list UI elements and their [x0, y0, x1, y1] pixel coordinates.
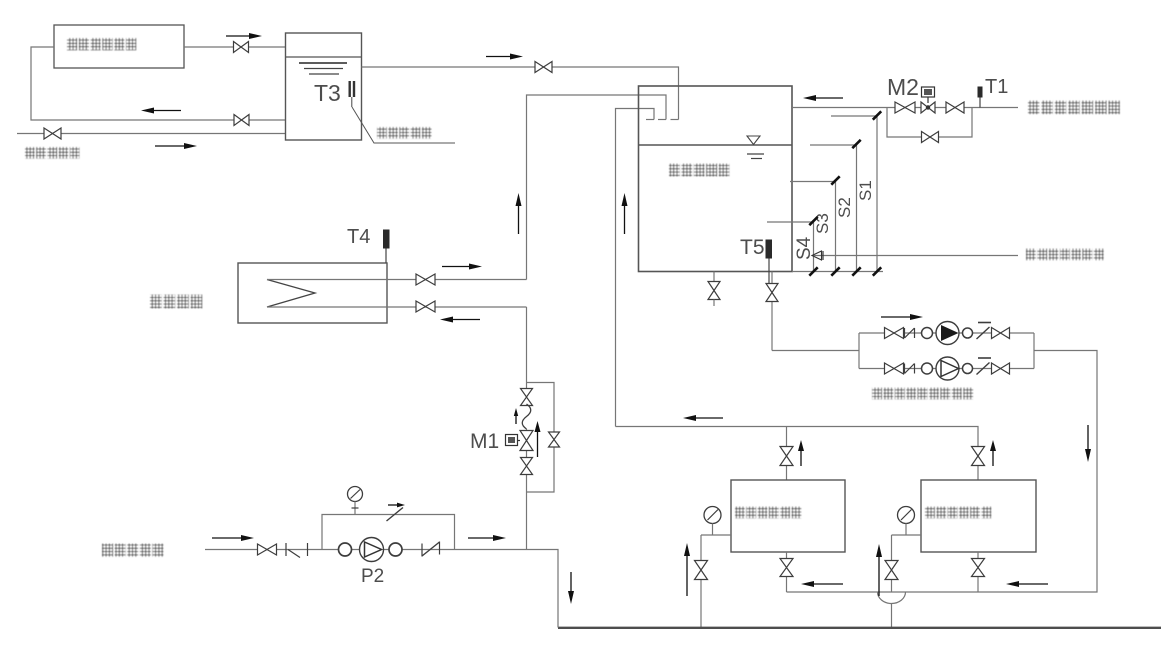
tank water level line [639, 144, 793, 146]
label 热泵热水机组 (1) [735, 507, 801, 519]
wire T3 outlet to hot water tank top [362, 67, 679, 120]
flow arrow up beside HP1 top valve [800, 451, 802, 466]
check valve [977, 327, 990, 339]
pressure gauge at HP2 inlet [898, 507, 915, 524]
valve on heater upper pipe [416, 274, 435, 285]
motorized valve M2 [921, 102, 935, 113]
wire cold water main to down riser [205, 550, 558, 628]
M2 bypass loop [887, 108, 972, 138]
callout leader 太阳能水箱 [352, 107, 455, 143]
sensor line S2 [810, 145, 857, 272]
label 太阳能集热管 [67, 38, 136, 50]
valve on M1 bypass [549, 432, 560, 447]
valve right of M2 [946, 102, 964, 113]
hook foot riser B [646, 119, 654, 121]
branch outlet valve [992, 328, 1010, 339]
flex connector [904, 364, 906, 374]
wire return line from M2 to tank [792, 107, 1018, 109]
tank T3 solar water tank [286, 33, 362, 140]
flow triangle on supply line [812, 251, 822, 260]
hook foot riser A [658, 119, 666, 121]
branch inlet valve [885, 328, 904, 339]
valve on M2 bypass [922, 132, 939, 143]
branch inlet valve [885, 363, 904, 374]
svg-text:S2: S2 [835, 197, 854, 218]
pump P2 [360, 538, 384, 562]
flow arrow right cold main (west) [212, 537, 241, 539]
water surface nabla symbol [747, 136, 760, 145]
wire riser A (heater supply) to tank top [527, 95, 667, 280]
flow arrow up beside riser B [624, 206, 626, 234]
check valve on bypass [387, 508, 404, 522]
label 生活热水箱 [669, 164, 729, 177]
wire HP2 outlet down to return line [977, 552, 979, 592]
valve below HP1 [780, 559, 793, 577]
relief S symbol [522, 404, 531, 429]
svg-text:S3: S3 [813, 213, 832, 234]
flow arrow left on return line (west) [814, 583, 843, 585]
valve on cold water line [44, 128, 61, 139]
label 生活热水供水管 [1026, 249, 1104, 261]
M1 bypass loop [527, 383, 555, 493]
wire solar return loop (left riser + return line) [31, 47, 286, 120]
flow arrow up beside HP2 top valve [992, 451, 994, 466]
wire heater upper pipe [267, 279, 527, 281]
heat pump unit 1 box 热泵热水机组 [731, 480, 845, 552]
flow arrow up in M1 group [537, 432, 539, 457]
label 冷水供水管 (top-left) [25, 147, 80, 159]
svg-text:T5: T5 [740, 236, 765, 259]
flow arrow right above pump group [881, 316, 910, 318]
flow arrow left on supply header [696, 417, 723, 419]
flow arrow right heater outlet [442, 266, 469, 268]
valve on HP2 inlet riser [885, 561, 898, 580]
hook foot of down pipe [671, 119, 679, 121]
tank 生活热水箱 domestic hot water tank [639, 86, 793, 272]
wire heater riser lower segment through M1 [526, 307, 528, 405]
wire HP1 inlet [701, 534, 731, 536]
pressure gauge at HP1 inlet [704, 507, 721, 524]
flow arrow down beside cold riser [570, 572, 572, 591]
svg-text:S4: S4 [794, 236, 815, 260]
flow arrow right (T3 outlet) [486, 56, 510, 58]
pump group right header [1033, 333, 1035, 369]
flow arrow down on right riser [1087, 425, 1089, 449]
tank T3 top divider [286, 56, 362, 58]
pump branch bottom wire [859, 368, 1034, 370]
svg-text:T1: T1 [985, 76, 1008, 98]
wire HP2 inlet riser upper segment [891, 535, 893, 592]
heat pump unit 2 box 热泵热水机组 [921, 480, 1036, 552]
thermometer T3 sensor [349, 81, 351, 97]
wire riser B (heat pump loop) to tank top [616, 109, 655, 427]
sensor line S3 [790, 182, 836, 272]
wire heater lower pipe [267, 306, 527, 308]
check valve [977, 363, 990, 375]
flow arrow up beside HP2 inlet [878, 557, 880, 596]
branch outlet valve [992, 363, 1010, 374]
flow arrow right (cold water) [155, 145, 184, 147]
svg-text:M1: M1 [470, 430, 499, 453]
sensor line S1 [831, 116, 877, 272]
valve above M1 [521, 389, 533, 406]
flow arrow left (solar return) [154, 110, 181, 112]
sensor line S4 [767, 222, 814, 272]
wire pump group outlet to right riser down to HP return [787, 351, 1098, 593]
tank bottom extension line with ticks [792, 271, 883, 273]
wire HP1 inlet riser from bottom main [700, 535, 702, 628]
flow arrow up beside HP1 inlet [686, 556, 688, 596]
wire heat pump supply header y424 [616, 427, 979, 481]
valve on solar supply [234, 42, 249, 53]
svg-text:S1: S1 [856, 180, 875, 201]
valve on T3 outlet run [535, 62, 552, 73]
flow arrow left into tank top right [816, 97, 843, 99]
circulation pump running [936, 322, 959, 345]
thermometer T5 sensor [766, 240, 773, 259]
wire drop to heat pump 1 [786, 427, 788, 481]
union flange [963, 328, 973, 338]
wire HP1 outlet down to return line [786, 552, 788, 592]
pressure gauge on bypass [348, 487, 363, 502]
valve on tank outlet [766, 284, 778, 302]
wire cold water supply to T3 [17, 133, 286, 135]
thermometer T4 sensor [383, 230, 390, 249]
pump branch top wire [859, 332, 1034, 334]
union flange [963, 364, 973, 374]
valve left of M2 [895, 102, 915, 113]
label 热泵热水机组 (2) [925, 507, 991, 519]
flow arrow left on return line (east) [1019, 583, 1048, 585]
pipe bridge arc over return line [878, 592, 906, 604]
drain valve below tank [713, 272, 715, 282]
tank T3 water level lines [299, 62, 347, 64]
svg-text:M2: M2 [887, 74, 919, 100]
flow arrow left heater inlet [453, 319, 480, 321]
valve on HP1 inlet riser [695, 561, 708, 580]
label 冷水供水管 (bottom) [102, 544, 163, 557]
flow arrow right (solar supply) [226, 35, 249, 37]
wire to pump group inlet [772, 350, 859, 352]
valve on cold main [258, 544, 277, 555]
label 生活热水一次循环泵 [872, 388, 973, 400]
flow arrow right cold main (east) [468, 537, 493, 539]
wire HP2 inlet riser lower segment [891, 604, 893, 628]
motorized valve M1 [520, 431, 533, 451]
electric heater box 电加热器 [238, 263, 387, 323]
svg-text:P2: P2 [361, 566, 384, 587]
flow arrow up beside riser A [518, 206, 520, 234]
label 太阳能水箱 [377, 127, 432, 139]
valve on solar return [234, 115, 249, 126]
valve above heat pump 2 [972, 447, 985, 466]
P2 bypass loop [322, 515, 455, 550]
union flange [922, 328, 933, 339]
pump group left header [858, 333, 860, 369]
solar collector box 太阳能集热管 [54, 25, 184, 68]
valve below M1 [521, 458, 533, 475]
wire solar supply to T3 [184, 46, 286, 48]
wire hot water supply line [814, 255, 1018, 257]
valve on heater lower pipe [416, 301, 435, 312]
label 生活热水回水管 [1028, 101, 1120, 115]
svg-text:T3: T3 [314, 80, 341, 106]
wire HP2 inlet [892, 534, 922, 536]
bottom main line [558, 627, 1161, 629]
valve below HP2 [972, 559, 985, 577]
union flange [389, 543, 402, 556]
union flange [922, 363, 933, 374]
valve above heat pump 1 [780, 447, 793, 466]
flex/strainer symbol [285, 543, 287, 556]
flex connector [904, 328, 906, 338]
check valve on cold main [421, 544, 423, 557]
label 电加热器 [150, 295, 202, 309]
heating element [267, 280, 315, 308]
svg-text:T4: T4 [347, 226, 370, 248]
circulation pump standby [936, 357, 959, 380]
thermometer T1 sensor [978, 87, 983, 98]
union flange [339, 543, 352, 556]
wire tank outlet down to circulation pumps [771, 272, 773, 351]
